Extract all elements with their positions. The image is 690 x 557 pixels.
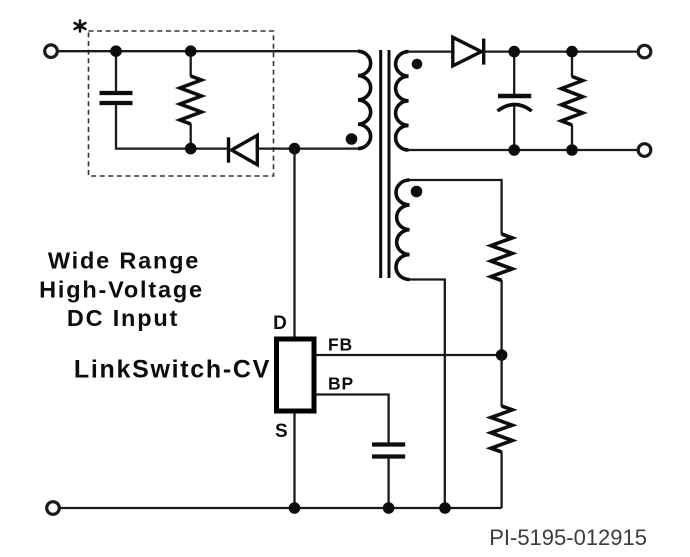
label: LinkSwitch-CV xyxy=(74,356,271,384)
wire: BP pin to bypass capacitor xyxy=(316,395,388,443)
wire: top input rail xyxy=(57,50,359,52)
transformer T1 secondary winding xyxy=(396,52,409,150)
asterisk note mark xyxy=(75,21,86,32)
diode D2 (output rectifier) xyxy=(453,37,484,66)
transformer core xyxy=(381,50,389,278)
node: C3 on rail xyxy=(383,502,395,514)
node: C2 top xyxy=(508,46,520,58)
resistor R1 (snubber) xyxy=(180,76,201,124)
wire: output bottom rail xyxy=(409,149,639,151)
capacitor C2 (output, polarized) xyxy=(498,96,532,111)
dashed snubber box xyxy=(89,31,274,176)
svg-text:LinkSwitch-CV: LinkSwitch-CV xyxy=(74,356,271,384)
pin label S xyxy=(275,421,288,442)
pin label D xyxy=(273,313,287,334)
transformer T1 primary winding xyxy=(358,51,371,148)
diode D1 (snubber, pointing left) xyxy=(229,135,258,164)
wire: output capacitor C2 leads xyxy=(513,52,515,150)
node: R1 bottom junction xyxy=(185,143,197,155)
wire: diode D1 to primary winding bottom xyxy=(257,147,358,149)
wire: secondary top to diode D2 xyxy=(409,50,453,52)
label: DC Input xyxy=(67,305,179,331)
input terminal (top left) xyxy=(45,45,58,58)
wire: capacitor C1 bottom lead to diode xyxy=(116,105,227,149)
node: R1 top junction xyxy=(185,45,197,57)
node: C1 top junction xyxy=(110,45,122,57)
bottom return terminal xyxy=(47,502,60,515)
node: FB divider junction xyxy=(496,349,508,361)
svg-text:PI-5195-012915: PI-5195-012915 xyxy=(489,525,647,550)
output terminal + xyxy=(638,45,651,58)
label: PI-5195-012915 xyxy=(489,525,647,550)
node: bias return on rail xyxy=(439,502,451,514)
polarity dot bias xyxy=(411,186,423,198)
pin label BP xyxy=(328,373,354,393)
wire: drain junction down to IC D pin xyxy=(293,149,295,337)
output terminal - xyxy=(638,144,651,157)
svg-text:Wide Range: Wide Range xyxy=(48,248,200,274)
svg-text:FB: FB xyxy=(328,334,353,354)
wire: FB wire from IC to divider xyxy=(316,354,501,356)
label: Wide Range xyxy=(48,248,200,274)
wire: diode D2 to output + terminal xyxy=(484,50,639,52)
wire: R4 leads xyxy=(500,355,502,508)
node: R2 top xyxy=(566,46,578,58)
node: R2 bottom xyxy=(566,144,578,156)
wire: capacitor C1 top lead xyxy=(115,51,117,91)
wire: bias winding top to feedback resistors xyxy=(410,180,502,235)
pin label FB xyxy=(328,334,353,354)
resistor R3 (feedback upper) xyxy=(491,234,512,281)
node: S pin on rail xyxy=(289,502,301,514)
label: High-Voltage xyxy=(39,277,204,303)
wire: R3 bottom to FB node xyxy=(500,280,502,355)
wire: bias winding return xyxy=(410,280,445,509)
capacitor C3 (bypass) xyxy=(372,445,405,457)
svg-text:DC Input: DC Input xyxy=(67,305,179,331)
wire: resistor R1 leads xyxy=(190,51,192,148)
resistor R4 (feedback lower) xyxy=(491,406,512,452)
polarity dot secondary xyxy=(412,59,423,70)
svg-text:D: D xyxy=(273,313,287,334)
capacitor C1 (snubber) xyxy=(100,93,133,103)
svg-text:BP: BP xyxy=(328,373,354,393)
svg-text:High-Voltage: High-Voltage xyxy=(39,277,204,303)
transformer T1 bias winding xyxy=(396,180,410,280)
wire: IC S pin to bottom rail xyxy=(293,414,295,509)
wire: load resistor R2 leads xyxy=(571,52,573,150)
svg-text:S: S xyxy=(275,421,288,442)
wire: C3 bottom lead xyxy=(387,459,389,509)
resistor R2 (output load) xyxy=(561,77,582,126)
node: C2 bottom xyxy=(508,144,520,156)
IC U1 LinkSwitch-CV xyxy=(277,339,315,411)
node: drain junction xyxy=(289,143,301,155)
polarity dot primary xyxy=(346,133,358,145)
wire: bottom rail xyxy=(59,507,501,509)
